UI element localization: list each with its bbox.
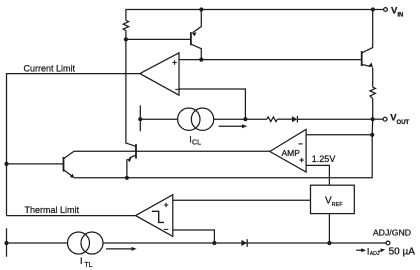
wire VREF left to TL plus input xyxy=(173,199,311,201)
wire AMP minus input xyxy=(306,134,372,136)
box VREF xyxy=(311,185,355,213)
node Q1 collector junction xyxy=(199,58,203,62)
svg-text:Thermal Limit: Thermal Limit xyxy=(25,205,80,215)
wire AMP plus input to VREF top xyxy=(306,165,329,185)
node Q2 base junction xyxy=(4,162,8,166)
diode D1 xyxy=(292,116,298,123)
wire VOUT node down to sense junction xyxy=(371,119,374,135)
svg-text:ADJ/GND: ADJ/GND xyxy=(373,227,411,237)
wire VREF bottom lead xyxy=(328,214,330,243)
node VOUT junction xyxy=(371,117,375,121)
wire op-amp output Current Limit to left rail xyxy=(7,74,140,164)
comparator AMP xyxy=(270,129,306,172)
diode D2 xyxy=(241,239,247,247)
resistor R3 xyxy=(267,117,278,122)
arrow ITL current direction xyxy=(106,247,137,251)
node minus input via on ICL wire xyxy=(243,117,247,121)
wire D1 to VOUT node xyxy=(297,118,372,120)
transistor Q3 NPN mirrored xyxy=(127,144,136,178)
current source ICL xyxy=(178,108,214,130)
arrow ICL current direction xyxy=(219,124,248,128)
node TL minus junction xyxy=(212,241,216,245)
transistor Q4 NPN pass xyxy=(362,10,373,88)
terminal VIN xyxy=(384,8,388,12)
node Q3 emitter junction xyxy=(125,176,129,180)
wire VOUT dot to terminal xyxy=(375,118,383,120)
wire R3 to diode D1 xyxy=(277,118,292,120)
transistor Q1 PNP xyxy=(191,10,201,60)
op-amp U1 current limit xyxy=(140,53,180,95)
wire left rail down to Thermal Limit xyxy=(6,164,8,216)
wire ADJ rail right of ITL xyxy=(103,242,386,244)
resistor R1 xyxy=(123,20,128,30)
wire ICL left lead xyxy=(140,118,177,120)
wire Q2 base xyxy=(7,163,64,165)
svg-text:1.25V: 1.25V xyxy=(312,154,336,164)
wire ICL right lead to resistor R3 xyxy=(214,118,267,120)
current source ITL xyxy=(68,232,104,254)
svg-text:ICL: ICL xyxy=(189,135,201,147)
wire op-amp plus input to Q4 base xyxy=(179,59,361,61)
svg-text:Current Limit: Current Limit xyxy=(24,64,76,74)
wire Q2 emitter rail to VOUT sense xyxy=(74,135,372,178)
resistor R2 xyxy=(370,87,375,98)
transistor Q2 NPN xyxy=(64,151,75,178)
node R1 junction xyxy=(124,37,128,41)
wire TL output Thermal Limit xyxy=(7,215,136,217)
node ICL tap xyxy=(138,117,142,121)
svg-text:VIN: VIN xyxy=(391,6,403,19)
node Q1 emitter at top rail xyxy=(199,7,203,11)
wire top rail from R1 to VIN xyxy=(126,10,373,21)
stub ADJ left xyxy=(6,228,8,256)
wire R2 to VOUT node xyxy=(372,99,374,120)
wire TL minus input to ADJ rail xyxy=(173,230,215,243)
node VIN junction xyxy=(371,7,375,11)
svg-text:AMP: AMP xyxy=(282,148,301,158)
comparator TL thermal limit xyxy=(136,195,173,237)
svg-text:IADJ: IADJ xyxy=(367,247,380,257)
wire Q2 collector to AMP output xyxy=(74,150,270,152)
wire R1 bottom to junction xyxy=(125,31,127,40)
node VREF ADJ junction xyxy=(327,241,331,245)
wire Q1 base xyxy=(126,38,190,40)
terminal VOUT xyxy=(383,117,387,121)
wire long vertical R1 junction down to Q3 collector xyxy=(126,39,136,146)
wire ADJ rail left segment xyxy=(7,242,68,244)
svg-text:ITL: ITL xyxy=(80,256,93,269)
svg-text:VOUT: VOUT xyxy=(390,113,409,126)
wire VIN dot to terminal xyxy=(375,9,384,11)
wire op-amp minus input to ICL node xyxy=(179,89,245,119)
svg-text:50 µA: 50 µA xyxy=(389,247,416,258)
node AMP minus sense junction xyxy=(370,133,374,137)
node ADJ left xyxy=(4,241,8,245)
label IADJ 50uA xyxy=(356,247,415,258)
stub ICL tap xyxy=(139,105,141,131)
terminal ADJ GND xyxy=(386,241,390,245)
